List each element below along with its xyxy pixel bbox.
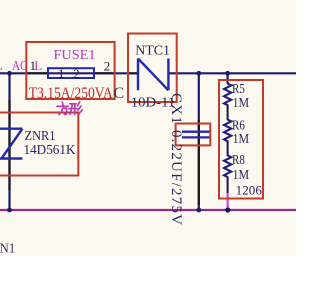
svg-text:2: 2 [104, 59, 111, 74]
svg-text:NTC1: NTC1 [135, 43, 170, 58]
svg-text:1206: 1206 [236, 183, 263, 198]
svg-text:L: L [0, 58, 3, 73]
svg-text:1M: 1M [233, 132, 250, 147]
svg-text:C: C [114, 85, 125, 102]
svg-text:T3.15A/250VA: T3.15A/250VA [29, 85, 113, 102]
svg-text:2: 2 [73, 67, 79, 81]
svg-text:1: 1 [58, 67, 64, 81]
svg-text:14D561K: 14D561K [24, 143, 76, 158]
svg-text:1: 1 [30, 58, 36, 73]
svg-text:CX1 0.22UF/275V: CX1 0.22UF/275V [168, 93, 184, 225]
svg-text:R8: R8 [232, 153, 245, 168]
svg-text:1M: 1M [233, 96, 250, 111]
svg-text:1M: 1M [233, 168, 250, 183]
svg-text:AC: AC [12, 58, 28, 73]
svg-text:N1: N1 [0, 241, 15, 256]
svg-text:FUSE1: FUSE1 [54, 48, 96, 63]
svg-text:R5: R5 [232, 82, 245, 97]
